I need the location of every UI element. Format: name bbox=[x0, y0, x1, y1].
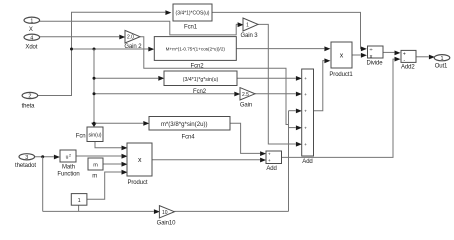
wire theta branch to Fcn2 bbox=[72, 47, 155, 52]
wire constant 1 to Product input4 bbox=[87, 170, 128, 199]
svg-text:+: + bbox=[304, 127, 307, 132]
wire into tall Add input4 bbox=[289, 125, 302, 130]
svg-text:2: 2 bbox=[69, 153, 71, 157]
gain block Gain (2.5) bbox=[240, 88, 255, 109]
wire Gain3 output down to tall Add input5 bbox=[258, 24, 302, 146]
svg-text:2.5: 2.5 bbox=[242, 92, 249, 98]
svg-text:Gain 3: Gain 3 bbox=[240, 33, 258, 39]
wire tall Add output hook up to Product1 input2 bbox=[314, 58, 331, 110]
gain block Gain 3 (1) bbox=[240, 18, 258, 39]
divide block Divide bbox=[366, 46, 383, 66]
svg-text:Product1: Product1 bbox=[329, 72, 353, 78]
svg-text:2: 2 bbox=[28, 94, 31, 100]
svg-text:(3/4*1)*COS(u): (3/4*1)*COS(u) bbox=[176, 11, 210, 17]
wire X port to Gain3 (under Fcn1, down, right, up) bbox=[40, 21, 244, 35]
svg-text:Add: Add bbox=[266, 166, 276, 172]
svg-text:Math: Math bbox=[62, 164, 75, 170]
svg-text:Xdot: Xdot bbox=[25, 44, 37, 50]
wire Gain2 output down and right to Add input3 riser bbox=[140, 37, 289, 125]
inport X bbox=[24, 17, 40, 33]
Fcn block Fcn2 bbox=[154, 37, 236, 70]
wire Divide output to Add2 plus input bbox=[383, 51, 401, 56]
svg-text:Product: Product bbox=[128, 180, 148, 186]
svg-text:Fcn1: Fcn1 bbox=[184, 25, 198, 31]
sum block Add (tall, 5 inputs) bbox=[302, 69, 314, 165]
svg-text:theta: theta bbox=[22, 104, 36, 110]
wire Fcn2 output to Product1 input1 bbox=[236, 46, 330, 51]
svg-text:Fcn2: Fcn2 bbox=[193, 89, 207, 95]
wire Fcn4 output to small Add input1 bbox=[230, 123, 266, 156]
svg-text:Gain: Gain bbox=[240, 102, 252, 108]
svg-text:Fcn2: Fcn2 bbox=[191, 63, 205, 69]
svg-text:m: m bbox=[92, 173, 97, 179]
node junction at y78 bbox=[93, 77, 96, 80]
inport theta bbox=[22, 92, 38, 109]
svg-text:sin(u): sin(u) bbox=[89, 133, 102, 139]
wire m constant output to Product input3 bbox=[103, 162, 128, 167]
svg-text:Gain 2: Gain 2 bbox=[124, 44, 142, 50]
wire Fcn3 output to tall Add input1 bbox=[237, 76, 302, 81]
Fcn block Fcn1 bbox=[173, 4, 212, 31]
svg-text:Fcn4: Fcn4 bbox=[182, 135, 196, 141]
Fcn block Fcn4 bbox=[149, 117, 230, 141]
svg-text:÷: ÷ bbox=[369, 47, 372, 53]
wire theta to Fcn1 (right, up, right) bbox=[38, 10, 172, 95]
svg-text:1: 1 bbox=[246, 23, 249, 29]
Fcn block Fcn3 bbox=[164, 71, 237, 95]
wire Gain 2.5 output to tall Add input2 bbox=[255, 92, 302, 97]
outport Out1 bbox=[434, 55, 450, 70]
wire bottom rail to Gain10 bbox=[43, 209, 160, 214]
svg-text:thetadot: thetadot bbox=[15, 163, 36, 169]
svg-text:x: x bbox=[138, 157, 142, 164]
svg-text:+: + bbox=[268, 152, 271, 157]
node junction at y123 bbox=[93, 122, 96, 125]
wire small Add output to Add2 minus input bbox=[282, 57, 401, 158]
Fcn block sin(u) bbox=[76, 127, 103, 142]
wire thetadot to Math Function bbox=[35, 155, 60, 160]
svg-text:Out1: Out1 bbox=[435, 63, 448, 69]
svg-text:4: 4 bbox=[30, 35, 33, 41]
gain block Gain 2 (2.0) bbox=[124, 30, 142, 49]
sum block Add (small, 2 inputs) bbox=[266, 151, 282, 172]
wire Math Function output to Product input2 bbox=[76, 154, 128, 159]
wire into tall Add input3 bbox=[289, 109, 302, 114]
svg-text:+: + bbox=[304, 110, 307, 115]
wire theta branch to Fcn4 bbox=[94, 121, 149, 126]
svg-text:Gain10: Gain10 bbox=[157, 220, 177, 225]
node junction at y94 bbox=[93, 92, 96, 95]
svg-text:x: x bbox=[370, 54, 373, 60]
svg-text:m: m bbox=[93, 162, 98, 168]
product block Product bbox=[127, 143, 152, 186]
wire riser feeding Add in3 and in4, down to bottom wire bbox=[288, 111, 290, 212]
svg-text:+: + bbox=[304, 143, 307, 148]
wire theta vertical drop to Fcn (sin) bbox=[91, 49, 97, 127]
product block Product1 bbox=[329, 42, 353, 78]
gain block Gain10 (10) bbox=[157, 206, 177, 227]
svg-text:Add2: Add2 bbox=[401, 64, 415, 70]
node junction thetadot branch bbox=[41, 155, 44, 158]
wire thetadot drop to bottom rail bbox=[42, 157, 44, 212]
node junction theta drop top bbox=[93, 48, 96, 51]
wire Product output to small Add input2 bbox=[152, 158, 266, 163]
svg-text:x: x bbox=[340, 53, 344, 60]
sum block Add2 bbox=[401, 50, 416, 70]
svg-text:Divide: Divide bbox=[366, 60, 383, 66]
svg-text:3: 3 bbox=[25, 155, 28, 161]
wire Fcn sin output to Product input1 bbox=[95, 142, 128, 151]
wire theta branch to Fcn3 bbox=[94, 76, 164, 81]
inport Xdot bbox=[24, 34, 40, 50]
svg-text:1: 1 bbox=[78, 198, 81, 204]
wire Gain10 output along bottom to riser bbox=[174, 210, 288, 212]
svg-text:X: X bbox=[29, 27, 33, 33]
svg-text:+: + bbox=[304, 93, 307, 98]
wire Add2 output to Out1 bbox=[416, 55, 435, 60]
svg-text:1: 1 bbox=[30, 18, 33, 24]
svg-text:10: 10 bbox=[162, 210, 168, 216]
constant block 1 bbox=[71, 194, 87, 206]
svg-text:m*(3/8*g*sin(2u)): m*(3/8*g*sin(2u)) bbox=[161, 121, 208, 128]
inport thetadot bbox=[15, 154, 36, 170]
svg-text:Add: Add bbox=[302, 159, 312, 165]
svg-text:+: + bbox=[304, 77, 307, 82]
wire Xdot to Gain2 bbox=[40, 35, 126, 40]
svg-text:M+m*(1-0.75*(1+cos(2*u))/2): M+m*(1-0.75*(1+cos(2*u))/2) bbox=[166, 47, 226, 52]
node junction theta riser bbox=[70, 48, 73, 51]
svg-text:1: 1 bbox=[440, 56, 443, 62]
wire Fcn1 output down to Divide top input bbox=[212, 12, 367, 51]
svg-text:+: + bbox=[268, 159, 271, 164]
svg-text:(3/4*1)*g*sin(u): (3/4*1)*g*sin(u) bbox=[183, 77, 219, 83]
svg-text:Fcn: Fcn bbox=[76, 134, 86, 140]
svg-text:Function: Function bbox=[57, 172, 79, 178]
wire theta branch to Gain (2.5) bbox=[94, 92, 240, 97]
svg-text:2.0: 2.0 bbox=[127, 35, 134, 41]
constant block m bbox=[88, 158, 103, 179]
wire Product1 output to Divide x input bbox=[352, 53, 367, 58]
Math Function block u^2 bbox=[57, 150, 79, 178]
wire constant 1 stub to bottom rail bbox=[78, 205, 80, 211]
